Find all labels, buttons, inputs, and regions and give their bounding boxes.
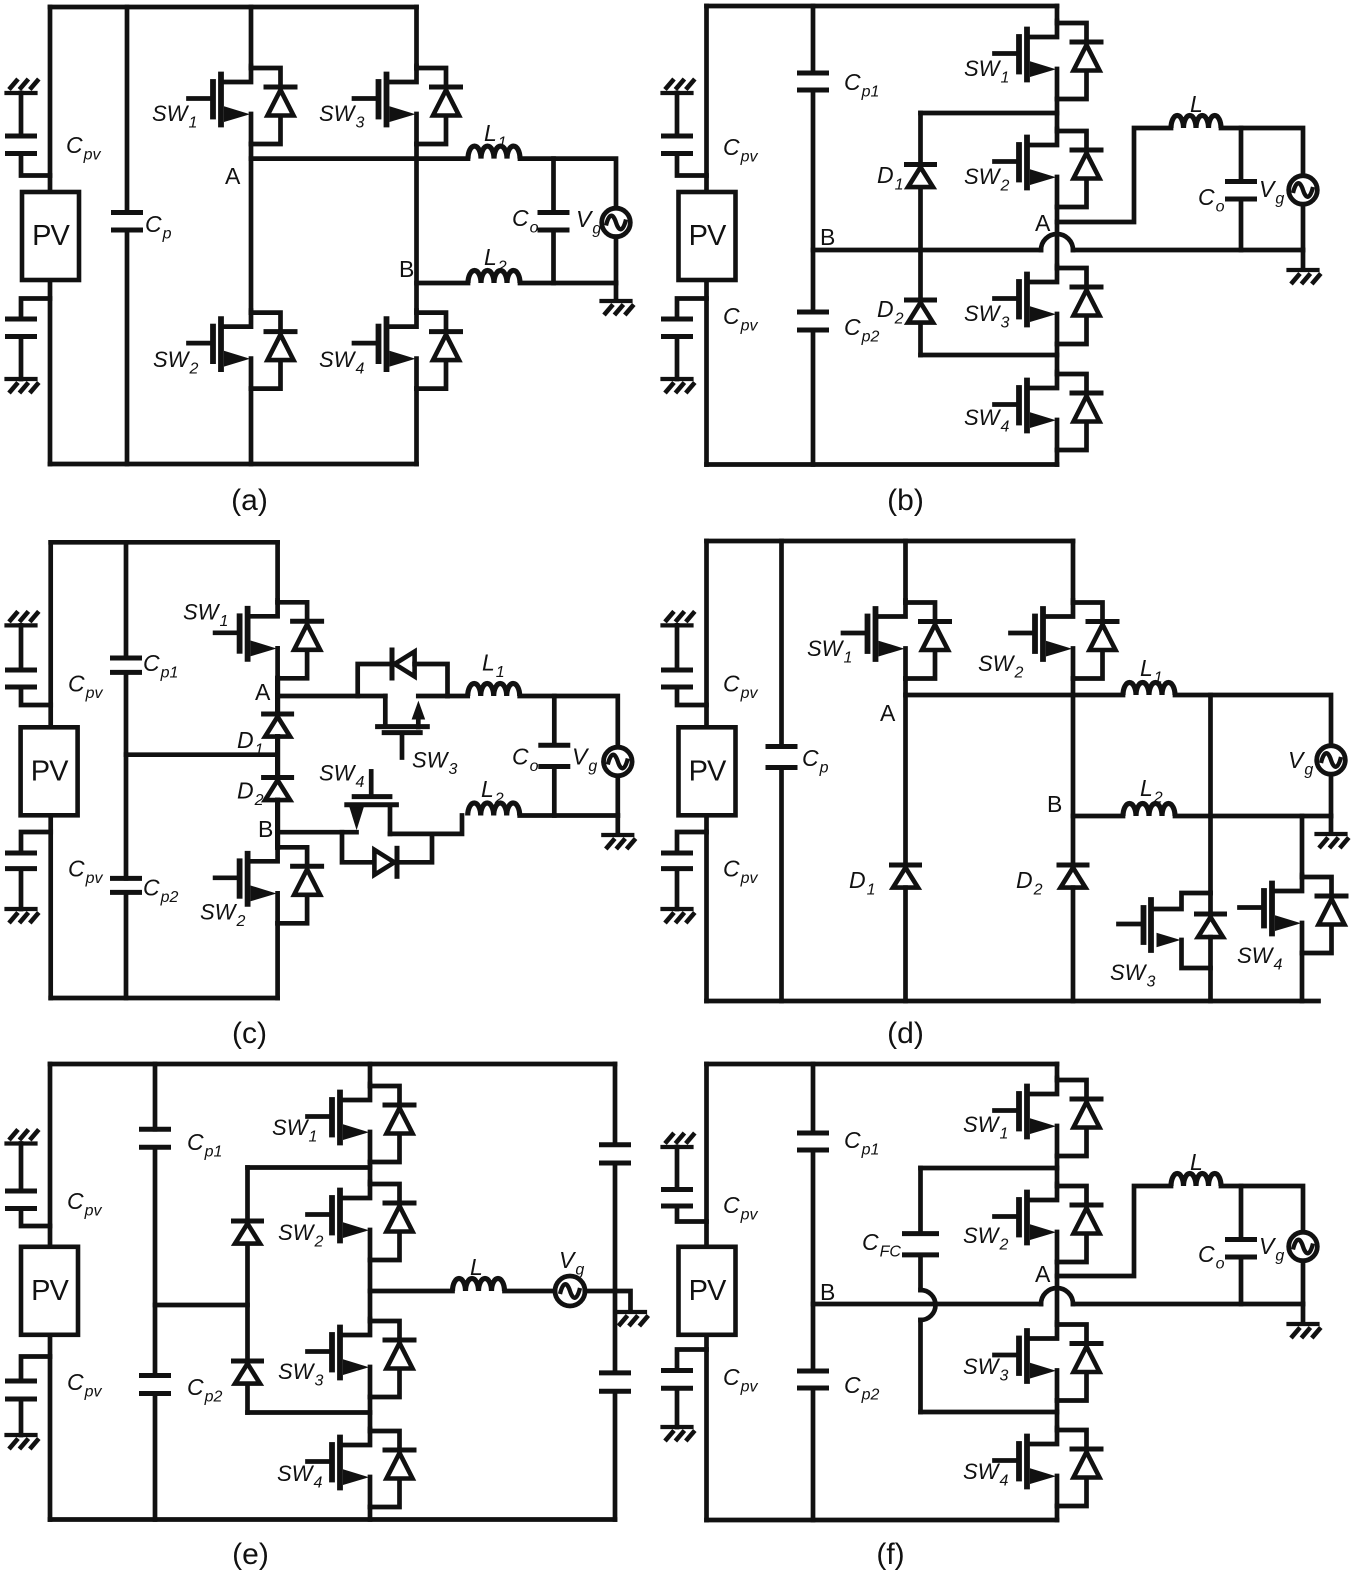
svg-text:PV: PV (689, 755, 727, 787)
svg-text:B: B (820, 1279, 835, 1305)
svg-text:A: A (880, 700, 896, 726)
svg-text:B: B (820, 224, 835, 250)
svg-text:B: B (399, 256, 414, 282)
svg-text:A: A (225, 163, 241, 189)
svg-text:A: A (255, 679, 271, 705)
svg-text:(a): (a) (231, 484, 268, 517)
svg-text:(d): (d) (887, 1017, 924, 1050)
svg-text:B: B (1047, 791, 1062, 817)
svg-text:L: L (1190, 91, 1203, 117)
svg-text:PV: PV (689, 1275, 727, 1307)
svg-text:(f): (f) (876, 1538, 904, 1571)
svg-text:PV: PV (32, 220, 70, 252)
svg-text:L: L (1190, 1149, 1203, 1175)
svg-text:(c): (c) (232, 1017, 267, 1050)
svg-text:L: L (470, 1254, 483, 1280)
svg-text:(b): (b) (887, 484, 924, 517)
svg-text:A: A (1035, 210, 1051, 236)
svg-text:PV: PV (31, 1275, 69, 1307)
svg-text:PV: PV (31, 755, 69, 787)
svg-text:PV: PV (689, 220, 727, 252)
svg-text:(e): (e) (232, 1538, 269, 1571)
svg-text:B: B (258, 816, 273, 842)
svg-text:A: A (1035, 1261, 1051, 1287)
